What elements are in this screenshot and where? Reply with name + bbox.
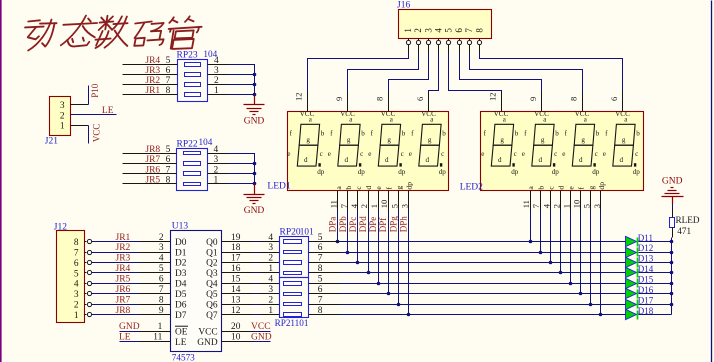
svg-text:JR5: JR5 bbox=[145, 176, 160, 186]
svg-text:c: c bbox=[360, 150, 363, 158]
svg-text:c: c bbox=[514, 150, 517, 158]
svg-text:Q1: Q1 bbox=[206, 248, 218, 258]
svg-text:JR8: JR8 bbox=[116, 306, 131, 316]
svg-text:18: 18 bbox=[231, 243, 241, 253]
svg-text:D15: D15 bbox=[638, 275, 654, 285]
svg-text:d: d bbox=[557, 186, 566, 190]
svg-text:U13: U13 bbox=[172, 222, 189, 232]
svg-text:8: 8 bbox=[474, 28, 484, 33]
svg-text:D1: D1 bbox=[175, 248, 187, 258]
svg-text:RP21101: RP21101 bbox=[275, 318, 309, 328]
svg-text:JR2: JR2 bbox=[145, 76, 160, 86]
svg-text:Q6: Q6 bbox=[206, 301, 218, 311]
svg-text:LE: LE bbox=[119, 333, 131, 343]
svg-text:5: 5 bbox=[74, 269, 79, 279]
svg-text:4: 4 bbox=[214, 145, 219, 155]
svg-text:d: d bbox=[620, 156, 624, 164]
svg-text:13: 13 bbox=[231, 295, 241, 305]
svg-text:LE: LE bbox=[102, 106, 114, 116]
svg-text:6: 6 bbox=[166, 155, 171, 165]
svg-text:DPh: DPh bbox=[398, 216, 408, 233]
svg-text:2: 2 bbox=[159, 233, 164, 243]
svg-text:VCC: VCC bbox=[615, 110, 630, 118]
svg-text:GND: GND bbox=[251, 333, 272, 343]
svg-text:dp: dp bbox=[552, 168, 560, 176]
svg-text:VCC: VCC bbox=[575, 110, 590, 118]
svg-text:e: e bbox=[409, 150, 412, 158]
svg-text:4: 4 bbox=[268, 275, 273, 285]
svg-text:b: b bbox=[361, 130, 365, 138]
svg-text:e: e bbox=[287, 150, 290, 158]
svg-text:2: 2 bbox=[214, 165, 219, 175]
svg-text:D0: D0 bbox=[175, 238, 187, 248]
svg-text:VCC: VCC bbox=[340, 110, 355, 118]
svg-text:9: 9 bbox=[528, 97, 538, 101]
svg-text:DPc: DPc bbox=[348, 217, 358, 233]
svg-text:5: 5 bbox=[444, 28, 454, 33]
svg-text:JR4: JR4 bbox=[145, 56, 160, 66]
svg-text:g: g bbox=[500, 136, 504, 144]
svg-text:3: 3 bbox=[214, 155, 219, 165]
svg-text:JR3: JR3 bbox=[145, 66, 160, 76]
svg-text:g: g bbox=[347, 136, 351, 144]
svg-text:g: g bbox=[587, 186, 596, 190]
svg-text:c: c bbox=[320, 150, 323, 158]
svg-text:g: g bbox=[387, 136, 391, 144]
svg-text:VCC: VCC bbox=[251, 322, 271, 332]
svg-text:2: 2 bbox=[214, 76, 219, 86]
svg-text:Q7: Q7 bbox=[206, 311, 218, 321]
svg-text:GND: GND bbox=[244, 116, 265, 126]
svg-text:Q5: Q5 bbox=[206, 290, 218, 300]
svg-text:8: 8 bbox=[74, 238, 79, 248]
svg-text:b: b bbox=[515, 130, 519, 138]
svg-text:JR5: JR5 bbox=[116, 275, 131, 285]
svg-text:8: 8 bbox=[569, 97, 579, 101]
svg-text:12: 12 bbox=[488, 93, 498, 102]
svg-text:6: 6 bbox=[318, 285, 323, 295]
svg-text:OE: OE bbox=[175, 327, 188, 337]
svg-text:11: 11 bbox=[329, 200, 339, 208]
svg-text:c: c bbox=[554, 150, 557, 158]
svg-text:g: g bbox=[581, 136, 585, 144]
svg-text:4: 4 bbox=[159, 254, 164, 264]
svg-text:DPg: DPg bbox=[388, 216, 398, 233]
svg-text:Q2: Q2 bbox=[206, 259, 218, 269]
svg-text:D16: D16 bbox=[638, 285, 654, 295]
svg-text:Q3: Q3 bbox=[206, 269, 218, 279]
svg-text:d: d bbox=[579, 156, 583, 164]
svg-text:dp: dp bbox=[398, 168, 406, 176]
svg-text:17: 17 bbox=[231, 254, 241, 264]
svg-text:JR3: JR3 bbox=[116, 254, 131, 264]
svg-text:4: 4 bbox=[434, 28, 444, 33]
svg-text:2: 2 bbox=[359, 204, 369, 208]
svg-text:3: 3 bbox=[399, 204, 409, 208]
svg-text:dp: dp bbox=[358, 168, 366, 176]
svg-text:1: 1 bbox=[562, 204, 572, 208]
svg-text:5: 5 bbox=[159, 264, 164, 274]
svg-text:d: d bbox=[426, 156, 430, 164]
svg-text:10: 10 bbox=[231, 333, 241, 343]
svg-text:D14: D14 bbox=[638, 264, 654, 274]
svg-text:3: 3 bbox=[592, 204, 602, 208]
svg-text:8: 8 bbox=[318, 306, 323, 316]
svg-text:12: 12 bbox=[231, 306, 241, 316]
svg-text:J21: J21 bbox=[45, 137, 58, 147]
svg-text:VCC: VCC bbox=[92, 124, 102, 143]
svg-text:19: 19 bbox=[231, 233, 241, 243]
svg-text:g: g bbox=[394, 186, 403, 190]
svg-text:JR7: JR7 bbox=[145, 155, 160, 165]
svg-text:1: 1 bbox=[214, 86, 219, 96]
svg-text:14: 14 bbox=[231, 285, 241, 295]
svg-text:3: 3 bbox=[74, 290, 79, 300]
svg-text:15: 15 bbox=[231, 275, 241, 285]
svg-text:b: b bbox=[555, 130, 559, 138]
svg-text:J16: J16 bbox=[397, 1, 410, 11]
svg-text:1: 1 bbox=[158, 322, 163, 332]
svg-text:JR7: JR7 bbox=[116, 295, 131, 305]
svg-text:dp: dp bbox=[439, 168, 447, 176]
svg-text:e: e bbox=[522, 150, 525, 158]
svg-text:RP20: RP20 bbox=[280, 227, 301, 237]
svg-text:9: 9 bbox=[334, 97, 344, 101]
svg-text:e: e bbox=[368, 150, 371, 158]
svg-text:b: b bbox=[636, 130, 640, 138]
svg-text:12: 12 bbox=[294, 93, 304, 102]
svg-text:JR8: JR8 bbox=[145, 145, 160, 155]
svg-text:c: c bbox=[635, 150, 638, 158]
svg-text:J12: J12 bbox=[54, 222, 67, 232]
svg-text:3: 3 bbox=[159, 243, 164, 253]
svg-text:1: 1 bbox=[214, 176, 219, 186]
svg-text:1: 1 bbox=[369, 204, 379, 208]
svg-text:D3: D3 bbox=[175, 269, 187, 279]
svg-text:74573: 74573 bbox=[172, 352, 195, 362]
svg-text:DPa: DPa bbox=[328, 217, 338, 233]
svg-text:VCC: VCC bbox=[381, 110, 396, 118]
svg-text:9: 9 bbox=[159, 306, 164, 316]
svg-text:d: d bbox=[304, 156, 308, 164]
svg-text:7: 7 bbox=[166, 76, 171, 86]
svg-text:5: 5 bbox=[582, 204, 592, 208]
svg-text:g: g bbox=[622, 136, 626, 144]
svg-text:104: 104 bbox=[199, 137, 213, 147]
svg-text:JR1: JR1 bbox=[145, 86, 160, 96]
svg-text:7: 7 bbox=[318, 295, 323, 305]
svg-text:D13: D13 bbox=[638, 254, 654, 264]
svg-text:LE: LE bbox=[175, 338, 187, 348]
svg-text:e: e bbox=[562, 150, 565, 158]
svg-text:1: 1 bbox=[403, 28, 413, 33]
svg-text:RP23: RP23 bbox=[177, 51, 198, 61]
svg-text:c: c bbox=[595, 150, 598, 158]
svg-text:e: e bbox=[481, 150, 484, 158]
svg-text:e: e bbox=[328, 150, 331, 158]
svg-text:e: e bbox=[603, 150, 606, 158]
svg-text:d: d bbox=[364, 186, 373, 190]
svg-text:D7: D7 bbox=[175, 311, 187, 321]
svg-text:1: 1 bbox=[268, 306, 273, 316]
svg-text:d: d bbox=[385, 156, 389, 164]
svg-text:7: 7 bbox=[531, 204, 541, 208]
svg-text:2: 2 bbox=[551, 204, 561, 208]
svg-text:3: 3 bbox=[60, 101, 65, 111]
svg-text:g: g bbox=[428, 136, 432, 144]
svg-text:1: 1 bbox=[74, 311, 79, 321]
svg-text:6: 6 bbox=[74, 259, 79, 269]
svg-text:VCC: VCC bbox=[494, 110, 509, 118]
svg-text:DPb: DPb bbox=[338, 216, 348, 233]
svg-text:dp: dp bbox=[592, 168, 600, 176]
svg-text:8: 8 bbox=[375, 97, 385, 101]
svg-text:1: 1 bbox=[60, 122, 65, 132]
svg-text:dp: dp bbox=[633, 168, 641, 176]
svg-text:7: 7 bbox=[166, 165, 171, 175]
svg-text:DPe: DPe bbox=[368, 217, 378, 233]
svg-text:D2: D2 bbox=[175, 259, 187, 269]
svg-text:6: 6 bbox=[415, 97, 425, 101]
svg-text:D5: D5 bbox=[175, 290, 187, 300]
svg-text:5: 5 bbox=[389, 204, 399, 208]
svg-text:c: c bbox=[441, 150, 444, 158]
svg-text:b: b bbox=[536, 186, 545, 190]
svg-text:2: 2 bbox=[413, 28, 423, 33]
svg-text:10: 10 bbox=[572, 200, 582, 209]
svg-text:GND: GND bbox=[662, 176, 683, 186]
svg-text:RLED: RLED bbox=[676, 215, 700, 225]
svg-text:D12: D12 bbox=[638, 243, 654, 253]
svg-text:6: 6 bbox=[318, 243, 323, 253]
svg-text:2: 2 bbox=[268, 295, 273, 305]
svg-text:dp: dp bbox=[405, 182, 414, 190]
svg-text:b: b bbox=[402, 130, 406, 138]
svg-text:7: 7 bbox=[159, 285, 164, 295]
svg-text:P10: P10 bbox=[90, 83, 100, 98]
svg-text:3: 3 bbox=[268, 285, 273, 295]
svg-text:GND: GND bbox=[244, 206, 265, 216]
svg-text:D11: D11 bbox=[638, 233, 653, 243]
svg-text:11: 11 bbox=[521, 200, 531, 208]
svg-text:d: d bbox=[539, 156, 543, 164]
svg-text:5: 5 bbox=[318, 275, 323, 285]
svg-text:20: 20 bbox=[231, 322, 241, 332]
svg-text:c: c bbox=[401, 150, 404, 158]
svg-text:4: 4 bbox=[214, 56, 219, 66]
svg-text:7: 7 bbox=[464, 28, 474, 33]
svg-text:LED2: LED2 bbox=[460, 182, 483, 192]
svg-text:VCC: VCC bbox=[421, 110, 436, 118]
svg-text:Q4: Q4 bbox=[206, 280, 218, 290]
svg-text:7: 7 bbox=[318, 254, 323, 264]
svg-text:4: 4 bbox=[74, 280, 79, 290]
svg-text:7: 7 bbox=[339, 204, 349, 208]
svg-text:JR1: JR1 bbox=[116, 233, 131, 243]
svg-text:JR4: JR4 bbox=[116, 264, 131, 274]
svg-text:3: 3 bbox=[214, 66, 219, 76]
svg-text:6: 6 bbox=[454, 28, 464, 33]
svg-text:D4: D4 bbox=[175, 280, 187, 290]
svg-text:GND: GND bbox=[119, 322, 140, 332]
svg-text:VCC: VCC bbox=[300, 110, 315, 118]
svg-text:JR6: JR6 bbox=[116, 285, 131, 295]
svg-text:3: 3 bbox=[423, 28, 433, 33]
svg-text:2: 2 bbox=[74, 301, 79, 311]
svg-text:1: 1 bbox=[268, 264, 273, 274]
svg-text:g: g bbox=[306, 136, 310, 144]
svg-text:8: 8 bbox=[166, 176, 171, 186]
svg-text:d: d bbox=[345, 156, 349, 164]
svg-text:5: 5 bbox=[166, 56, 171, 66]
svg-text:dp: dp bbox=[597, 182, 606, 190]
svg-text:dp: dp bbox=[317, 168, 325, 176]
svg-text:D6: D6 bbox=[175, 301, 187, 311]
svg-text:b: b bbox=[344, 186, 353, 190]
svg-text:VCC: VCC bbox=[198, 327, 217, 337]
svg-text:DPf: DPf bbox=[378, 218, 388, 233]
svg-text:5: 5 bbox=[318, 233, 323, 243]
svg-text:VCC: VCC bbox=[534, 110, 549, 118]
svg-text:d: d bbox=[498, 156, 502, 164]
svg-text:JR2: JR2 bbox=[116, 243, 131, 253]
svg-text:471: 471 bbox=[677, 226, 691, 236]
svg-text:b: b bbox=[321, 130, 325, 138]
svg-text:10: 10 bbox=[379, 200, 389, 209]
svg-text:5: 5 bbox=[166, 145, 171, 155]
svg-text:8: 8 bbox=[318, 264, 323, 274]
svg-text:b: b bbox=[442, 130, 446, 138]
svg-text:b: b bbox=[596, 130, 600, 138]
svg-text:JR6: JR6 bbox=[145, 165, 160, 175]
svg-text:GND: GND bbox=[197, 338, 218, 348]
svg-text:2: 2 bbox=[268, 254, 273, 264]
svg-text:11: 11 bbox=[153, 333, 162, 343]
svg-text:Q0: Q0 bbox=[206, 238, 218, 248]
svg-text:16: 16 bbox=[231, 264, 241, 274]
svg-text:g: g bbox=[541, 136, 545, 144]
svg-text:3: 3 bbox=[268, 243, 273, 253]
svg-text:7: 7 bbox=[74, 248, 79, 258]
svg-text:2: 2 bbox=[60, 111, 65, 121]
svg-text:101: 101 bbox=[300, 226, 314, 236]
svg-text:4: 4 bbox=[268, 233, 273, 243]
svg-text:D17: D17 bbox=[638, 295, 654, 305]
svg-text:LED1: LED1 bbox=[267, 182, 290, 192]
svg-text:6: 6 bbox=[159, 275, 164, 285]
svg-text:D18: D18 bbox=[638, 306, 654, 316]
svg-text:DPd: DPd bbox=[358, 216, 368, 233]
svg-text:8: 8 bbox=[166, 86, 171, 96]
svg-text:RP22: RP22 bbox=[177, 140, 198, 150]
svg-text:dp: dp bbox=[511, 168, 519, 176]
svg-text:6: 6 bbox=[609, 97, 619, 101]
svg-text:6: 6 bbox=[166, 66, 171, 76]
svg-text:8: 8 bbox=[159, 295, 164, 305]
